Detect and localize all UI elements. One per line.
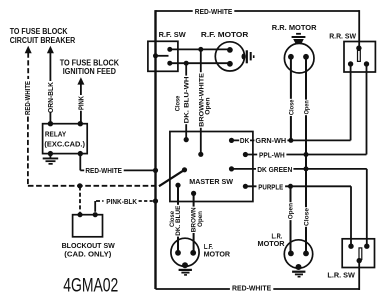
svg-text:MOTOR: MOTOR [204, 250, 231, 259]
svg-text:GRN-WH: GRN-WH [255, 138, 286, 145]
svg-text:DK: DK [240, 138, 249, 145]
svg-text:(CAD. ONLY): (CAD. ONLY) [64, 249, 112, 258]
node junction RED-WHITE at main vertical [153, 168, 158, 173]
node junction GRN-WH / R.R. Close [288, 138, 293, 143]
svg-text:DK. BLU-WH: DK. BLU-WH [184, 76, 191, 123]
node junction DK. BLU-WH tap [184, 61, 189, 66]
node junction dashed RED-WHITE blockout tap [77, 183, 82, 188]
wire L.F. motor Close (DK. BLUE) [177, 185, 179, 253]
arrowhead ORN-BLK to fuse block [47, 46, 54, 53]
wire R.F. SW wiper stub [156, 55, 169, 57]
wire DK GREEN row to L.R. SW [232, 169, 367, 246]
wire BROWN-WHITE (Open) to master switch [200, 49, 202, 154]
svg-text:R.F. SW: R.F. SW [159, 30, 186, 39]
svg-text:RED-WHITE: RED-WHITE [232, 286, 272, 293]
svg-text:PINK: PINK [78, 96, 85, 110]
wire dashed to blockout switch left terminal [79, 187, 81, 215]
ground at L.F. motor (below) [182, 262, 188, 268]
svg-text:Close: Close [175, 95, 182, 111]
wire PINK-BLK dash left of text [96, 200, 104, 202]
node master switch terminal DK GRN-WH [229, 138, 234, 143]
node master switch terminal DK. BLUE up [184, 137, 189, 142]
svg-text:PURPLE: PURPLE [258, 184, 283, 191]
svg-text:Open: Open [205, 97, 212, 114]
node junction BROWN-WHITE tap [198, 47, 203, 52]
svg-text:DK. BLUE: DK. BLUE [175, 205, 182, 236]
motor R.R. MOTOR body [284, 43, 314, 73]
node master switch terminal PURPLE [243, 184, 248, 189]
relay box [43, 124, 88, 154]
node L.R. motor terminal right [303, 251, 309, 257]
node junction DK GREEN / L.R. Close [304, 166, 309, 171]
wire DK. BLU-WH (Close) to master switch [185, 63, 187, 139]
node R.F. SW upper contact [167, 47, 172, 52]
switch element slot in L.R. SW [359, 248, 362, 260]
svg-text:4GMA02: 4GMA02 [63, 276, 118, 297]
svg-text:Open: Open [304, 100, 311, 114]
node L.R. SW top-left terminal [348, 244, 353, 249]
motor R.F. MOTOR body [215, 42, 244, 71]
node master switch terminal BROWN down [191, 191, 196, 196]
switch R.R. SW box [344, 42, 375, 73]
node R.F. motor terminal lower [227, 61, 233, 67]
svg-text:PINK-BLK: PINK-BLK [106, 199, 137, 206]
switch BLOCKOUT SW box [73, 215, 103, 237]
ground at R.F. motor (sideways) [242, 54, 246, 60]
svg-text:MASTER SW: MASTER SW [189, 177, 233, 186]
svg-text:R.F. MOTOR: R.F. MOTOR [201, 30, 249, 39]
node L.F. motor terminal right [190, 250, 196, 256]
node master switch terminal DK GREEN [229, 166, 234, 171]
svg-text:L.R. SW: L.R. SW [327, 271, 355, 280]
node junction PINK-BLK at main vertical [153, 198, 158, 203]
svg-text:RED-WHITE: RED-WHITE [25, 81, 32, 115]
ground at relay [50, 154, 52, 159]
svg-text:R.R. SW: R.R. SW [329, 31, 356, 40]
svg-text:Open: Open [197, 211, 204, 227]
wire left main vertical (RED-WHITE bus) [154, 10, 156, 289]
svg-text:R.R. MOTOR: R.R. MOTOR [272, 23, 317, 32]
wire RED-WHITE dashed from circuit breaker [27, 53, 29, 80]
ground at L.R. motor (below) [296, 264, 302, 270]
motor L.R. MOTOR body [284, 240, 312, 268]
node relay terminal ground [48, 151, 53, 156]
svg-text:RED-WHITE: RED-WHITE [195, 9, 233, 16]
node blockout switch left terminal [77, 212, 82, 217]
wire PPL-WH row to R.R. SW [245, 64, 366, 155]
node junction PURPLE / L.R. Open [288, 184, 293, 189]
node junction PPL-WH / R.R. Open [304, 152, 309, 157]
wire RED-WHITE dashed down left side [27, 117, 29, 186]
motor L.F. MOTOR body [171, 238, 199, 266]
node R.R. SW top terminal [356, 45, 361, 50]
node L.R. SW bottom terminal [357, 258, 362, 263]
wire R.R. motor Close [290, 57, 292, 141]
wire master switch wiper diagonal [159, 170, 185, 186]
wire RED-WHITE from relay to main vertical [80, 154, 155, 171]
wire PINK relay feed [80, 84, 82, 124]
svg-text:Close: Close [304, 208, 311, 226]
svg-text:DK GREEN: DK GREEN [257, 167, 292, 174]
svg-text:Open: Open [288, 203, 295, 219]
svg-text:CIRCUIT BREAKER: CIRCUIT BREAKER [10, 35, 76, 45]
wire DK GRN-WH row to R.R. SW [232, 64, 351, 140]
node master switch terminal DK. BLUE down [175, 183, 180, 188]
node R.R. SW bottom-left terminal [348, 61, 353, 66]
node R.R. SW bottom-right terminal [364, 61, 369, 66]
wire PINK-BLK elbow from blockout switch [94, 201, 96, 212]
node L.R. SW top-right terminal [364, 244, 369, 249]
wire L.R. SW to bottom rail [358, 261, 360, 290]
wire RED-WHITE dashed horizontal to master wiper [28, 185, 160, 187]
wire R.R. SW feed from top rail [358, 10, 360, 48]
node relay terminal ORN-BLK [48, 121, 53, 126]
node L.F. motor terminal left [175, 250, 181, 256]
switch R.F. SW box [148, 41, 178, 71]
svg-text:PPL-WH: PPL-WH [259, 153, 285, 160]
node L.R. motor terminal left [288, 251, 294, 257]
node master switch terminal BROWN up [198, 152, 203, 157]
svg-text:RED-WHITE: RED-WHITE [85, 168, 122, 175]
wire R.F. SW lower contact to R.F. motor [170, 62, 230, 64]
wire top RED-WHITE rail [156, 10, 360, 12]
node relay terminal PINK [78, 121, 83, 126]
wire R.R. motor Open / L.R. motor Close vertical [305, 57, 307, 254]
wire L.R. motor Open [290, 186, 292, 253]
node R.F. motor terminal upper [227, 47, 233, 53]
node relay terminal RED-WHITE out [78, 151, 83, 156]
arrowhead PINK to ignition feed [77, 77, 84, 84]
wire R.F. SW upper contact to R.F. motor [170, 48, 230, 50]
label white backs for in-line wire names [84, 8, 310, 292]
svg-text:IGNITION FEED: IGNITION FEED [63, 66, 116, 76]
wire L.F. motor Open (BROWN) [193, 193, 195, 252]
arrowhead RED-WHITE to fuse block [25, 46, 32, 53]
svg-text:Close: Close [288, 99, 295, 115]
node blockout switch right terminal [93, 212, 98, 217]
svg-text:(EXC.CAD.): (EXC.CAD.) [44, 140, 85, 149]
svg-text:MOTOR: MOTOR [258, 239, 286, 248]
switch MASTER SW box [170, 132, 253, 202]
node R.F. SW wiper [153, 53, 158, 58]
node R.R. motor terminal right [303, 54, 309, 60]
wire PINK-BLK dashes right of text [139, 200, 153, 202]
node R.F. SW lower contact [167, 61, 172, 66]
switch element slot in R.R. SW [358, 50, 361, 61]
wire bottom RED-WHITE rail [156, 288, 360, 290]
node master switch wiper [182, 167, 187, 172]
switch L.R. SW box [342, 239, 374, 268]
node R.R. motor terminal left [288, 54, 294, 60]
wire PURPLE row to L.R. SW [245, 186, 351, 246]
node master switch terminal PPL-WH [243, 152, 248, 157]
svg-text:RELAY: RELAY [45, 130, 66, 139]
svg-text:ORN-BLK: ORN-BLK [48, 82, 55, 113]
ground at R.R. motor (above) [296, 33, 301, 35]
wire ORN-BLK relay feed [49, 53, 51, 124]
